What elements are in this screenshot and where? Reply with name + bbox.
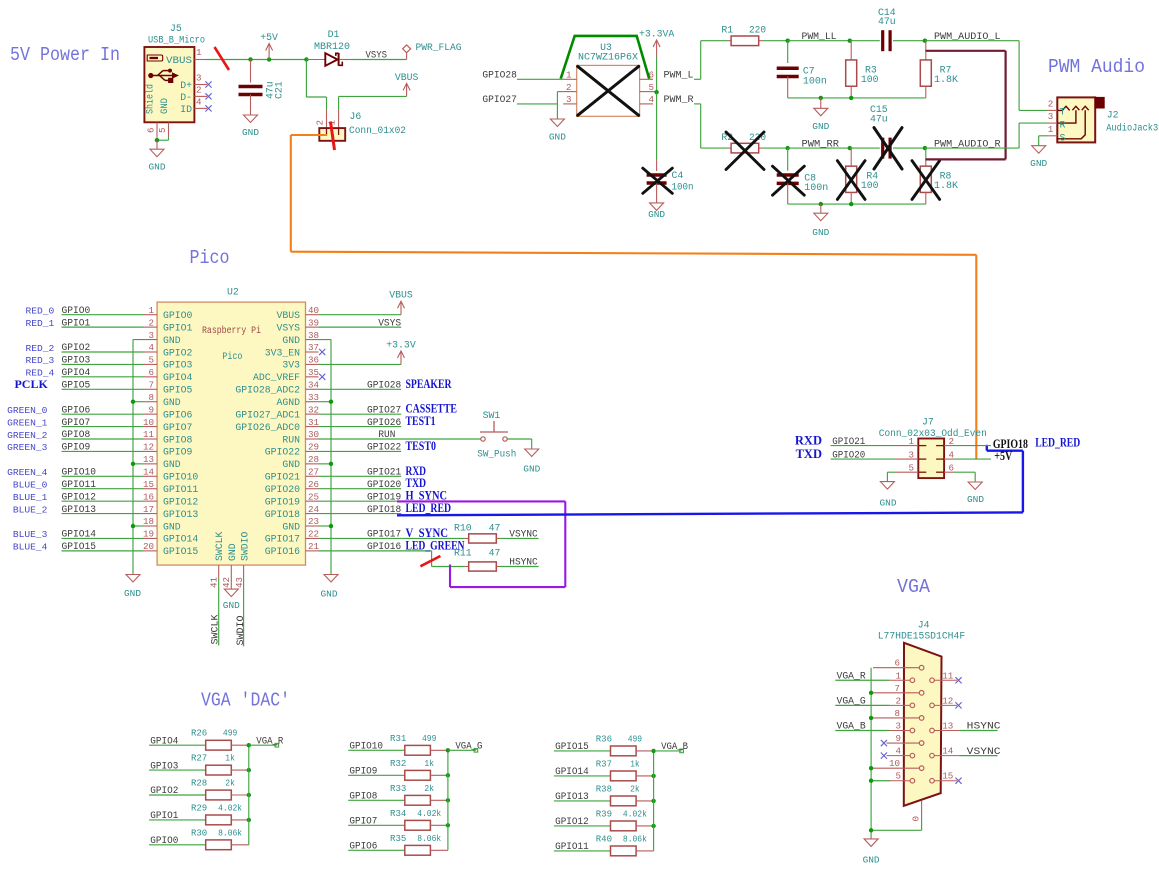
svg-text:5: 5 [148, 355, 154, 366]
svg-text:4: 4 [148, 342, 154, 353]
svg-text:VGA_G: VGA_G [455, 742, 482, 753]
svg-text:BLUE_0: BLUE_0 [13, 480, 48, 491]
svg-text:GPIO9: GPIO9 [62, 443, 91, 454]
svg-text:R37: R37 [596, 758, 612, 769]
svg-text:SWCLK: SWCLK [214, 531, 225, 561]
svg-text:R: R [1060, 121, 1066, 132]
svg-text:16: 16 [143, 491, 154, 502]
svg-text:GPIO28: GPIO28 [482, 71, 517, 82]
svg-text:4: 4 [196, 96, 202, 107]
svg-text:GPIO11: GPIO11 [163, 484, 198, 495]
svg-text:499: 499 [422, 733, 437, 744]
svg-text:R10: R10 [454, 523, 472, 534]
svg-text:USB_B_Micro: USB_B_Micro [148, 35, 205, 46]
svg-text:GPIO13: GPIO13 [555, 792, 589, 803]
svg-text:100: 100 [861, 74, 879, 85]
svg-text:GPIO15: GPIO15 [555, 742, 589, 753]
svg-text:GPIO11: GPIO11 [62, 480, 97, 491]
svg-text:23: 23 [308, 516, 319, 527]
svg-text:+5V: +5V [260, 32, 278, 43]
svg-text:GPIO28: GPIO28 [367, 380, 401, 391]
svg-text:SWDIO: SWDIO [239, 531, 250, 561]
svg-text:GPIO13: GPIO13 [62, 505, 97, 516]
svg-text:GREEN_2: GREEN_2 [7, 430, 48, 441]
svg-text:VSYS: VSYS [378, 318, 401, 329]
svg-text:SWCLK: SWCLK [211, 614, 222, 644]
svg-text:RED_3: RED_3 [26, 355, 55, 366]
svg-text:GPIO12: GPIO12 [163, 496, 198, 507]
svg-text:20: 20 [143, 541, 154, 552]
svg-text:R1: R1 [721, 25, 733, 36]
svg-text:2: 2 [196, 84, 202, 95]
svg-text:GPIO0: GPIO0 [62, 306, 91, 317]
svg-text:R11: R11 [454, 548, 472, 559]
svg-text:12: 12 [942, 695, 953, 706]
svg-text:GND: GND [549, 132, 566, 143]
svg-text:J4: J4 [918, 619, 930, 630]
svg-text:9: 9 [148, 404, 154, 415]
svg-text:Raspberry Pi: Raspberry Pi [202, 325, 261, 337]
svg-text:GPIO17: GPIO17 [367, 530, 401, 541]
svg-text:47: 47 [489, 523, 501, 534]
svg-text:GPIO3: GPIO3 [163, 360, 193, 371]
svg-text:1: 1 [908, 436, 914, 447]
svg-text:GPIO10: GPIO10 [349, 742, 383, 753]
svg-text:RUN: RUN [282, 434, 300, 445]
svg-text:GPIO22: GPIO22 [265, 447, 300, 458]
svg-text:1: 1 [566, 70, 572, 81]
svg-text:36: 36 [308, 355, 319, 366]
svg-text:GPIO19: GPIO19 [265, 496, 300, 507]
svg-text:VGA_B: VGA_B [837, 722, 866, 733]
svg-text:R32: R32 [390, 758, 407, 769]
svg-text:C4: C4 [672, 170, 684, 181]
svg-text:GPIO14: GPIO14 [62, 530, 97, 541]
svg-text:GND: GND [880, 498, 897, 509]
svg-text:GND: GND [223, 600, 240, 611]
svg-text:3: 3 [196, 73, 202, 84]
svg-text:5: 5 [908, 462, 914, 473]
svg-text:GPIO1: GPIO1 [62, 318, 91, 329]
svg-text:VGA_G: VGA_G [837, 697, 866, 708]
svg-text:GND: GND [282, 335, 300, 346]
svg-text:VBUS: VBUS [276, 310, 300, 321]
svg-text:15: 15 [942, 771, 953, 782]
svg-text:1: 1 [895, 670, 901, 681]
svg-text:GREEN_4: GREEN_4 [7, 467, 48, 478]
svg-text:PCLK: PCLK [14, 377, 48, 391]
svg-text:26: 26 [308, 479, 319, 490]
svg-text:GND: GND [124, 588, 141, 599]
svg-text:BLUE_3: BLUE_3 [13, 529, 48, 540]
svg-text:PWM Audio: PWM Audio [1048, 56, 1145, 78]
svg-text:GND: GND [282, 521, 300, 532]
svg-text:+5V: +5V [994, 449, 1012, 463]
svg-text:GPIO15: GPIO15 [62, 542, 97, 553]
svg-text:GPIO21: GPIO21 [832, 437, 865, 448]
svg-text:3V3: 3V3 [282, 360, 300, 371]
svg-text:5V Power In: 5V Power In [10, 44, 120, 66]
svg-text:+3.3V: +3.3V [386, 339, 416, 350]
svg-text:GND: GND [163, 335, 181, 346]
svg-text:U2: U2 [227, 286, 239, 297]
svg-text:33: 33 [308, 392, 319, 403]
svg-text:GND: GND [149, 162, 166, 173]
svg-text:HSYNC: HSYNC [967, 722, 1001, 733]
svg-text:ADC_VREF: ADC_VREF [253, 372, 300, 383]
svg-text:GPIO3: GPIO3 [150, 761, 178, 772]
svg-text:GPIO6: GPIO6 [163, 409, 193, 420]
svg-text:1: 1 [196, 47, 202, 58]
svg-text:GPIO4: GPIO4 [62, 368, 91, 379]
svg-text:21: 21 [308, 541, 320, 552]
svg-text:27: 27 [308, 466, 319, 477]
svg-text:0: 0 [911, 816, 922, 822]
svg-text:GND: GND [523, 464, 540, 475]
svg-text:AudioJack3: AudioJack3 [1106, 123, 1158, 134]
svg-text:R33: R33 [390, 783, 407, 794]
svg-text:R34: R34 [390, 808, 407, 819]
svg-text:31: 31 [308, 417, 320, 428]
svg-text:GND: GND [1030, 158, 1047, 169]
svg-text:13: 13 [942, 721, 953, 732]
svg-text:1k: 1k [630, 758, 640, 769]
svg-text:GND: GND [227, 543, 238, 561]
svg-text:GND: GND [967, 494, 984, 505]
svg-text:GPIO5: GPIO5 [62, 380, 91, 391]
svg-text:NC7WZ16P6X: NC7WZ16P6X [578, 52, 638, 63]
svg-text:R31: R31 [390, 733, 407, 744]
svg-text:18: 18 [143, 516, 154, 527]
svg-text:GPIO4: GPIO4 [163, 372, 193, 383]
svg-text:VSYS: VSYS [366, 51, 388, 62]
svg-text:+3.3VA: +3.3VA [639, 29, 674, 40]
svg-text:GPIO26: GPIO26 [367, 418, 401, 429]
svg-text:28: 28 [308, 454, 319, 465]
svg-text:2: 2 [148, 317, 154, 328]
svg-text:Conn_01x02: Conn_01x02 [349, 125, 406, 136]
svg-text:1: 1 [148, 305, 154, 316]
svg-text:100n: 100n [804, 182, 828, 193]
svg-text:3: 3 [908, 449, 914, 460]
svg-text:34: 34 [308, 379, 320, 390]
svg-text:GPIO28_ADC2: GPIO28_ADC2 [235, 385, 300, 396]
svg-text:GND: GND [242, 127, 259, 138]
svg-text:GPIO20: GPIO20 [265, 484, 300, 495]
svg-text:100n: 100n [803, 75, 827, 86]
svg-text:R30: R30 [191, 827, 208, 838]
svg-text:GPIO8: GPIO8 [62, 430, 91, 441]
svg-text:6: 6 [649, 70, 655, 81]
svg-text:7: 7 [148, 379, 154, 390]
svg-text:L77HDE15SD1CH4F: L77HDE15SD1CH4F [878, 630, 966, 641]
svg-text:R29: R29 [191, 802, 208, 813]
svg-text:4.02k: 4.02k [417, 808, 441, 819]
svg-text:R39: R39 [596, 808, 613, 819]
svg-text:4: 4 [895, 746, 901, 757]
svg-text:6: 6 [146, 127, 157, 133]
svg-text:GPIO5: GPIO5 [163, 385, 193, 396]
svg-text:2: 2 [315, 120, 326, 126]
svg-text:GPIO16: GPIO16 [367, 542, 401, 553]
svg-text:2k: 2k [424, 783, 434, 794]
svg-text:GPIO14: GPIO14 [163, 534, 198, 545]
svg-text:8.06k: 8.06k [417, 833, 441, 844]
svg-text:4.02k: 4.02k [218, 802, 242, 813]
svg-text:GND: GND [163, 397, 181, 408]
svg-text:VSYNC: VSYNC [967, 747, 1001, 758]
svg-text:GPIO12: GPIO12 [62, 492, 97, 503]
svg-text:VGA 'DAC': VGA 'DAC' [201, 690, 290, 712]
svg-text:LED_RED: LED_RED [1035, 436, 1080, 450]
svg-text:GND: GND [321, 589, 338, 600]
svg-text:2: 2 [566, 82, 572, 93]
svg-text:37: 37 [308, 342, 319, 353]
svg-text:TEST1: TEST1 [406, 414, 436, 428]
svg-text:17: 17 [143, 504, 154, 515]
svg-text:GND: GND [812, 227, 829, 238]
svg-text:VBUS: VBUS [166, 55, 192, 66]
svg-text:GND: GND [812, 121, 829, 132]
svg-text:12: 12 [143, 442, 154, 453]
svg-text:GPIO1: GPIO1 [163, 322, 193, 333]
svg-text:AGND: AGND [276, 397, 300, 408]
svg-text:10: 10 [889, 758, 900, 769]
svg-text:GND: GND [648, 209, 665, 220]
svg-text:GPIO1: GPIO1 [150, 811, 178, 822]
svg-text:GPIO0: GPIO0 [163, 310, 193, 321]
svg-text:D+: D+ [180, 80, 192, 91]
svg-text:39: 39 [308, 317, 319, 328]
svg-text:GPIO18: GPIO18 [367, 505, 401, 516]
svg-text:4: 4 [649, 94, 655, 105]
svg-text:GPIO14: GPIO14 [555, 767, 589, 778]
svg-text:Pico: Pico [222, 351, 242, 362]
svg-text:47: 47 [489, 548, 501, 559]
svg-text:41: 41 [209, 577, 220, 589]
svg-text:MBR120: MBR120 [314, 41, 350, 52]
svg-text:GND: GND [282, 459, 300, 470]
svg-text:1.8K: 1.8K [934, 180, 958, 191]
svg-text:499: 499 [223, 728, 238, 739]
svg-text:15: 15 [143, 479, 154, 490]
svg-text:3: 3 [148, 330, 154, 341]
svg-text:Shield: Shield [145, 84, 156, 114]
svg-text:11: 11 [942, 670, 954, 681]
svg-text:SW1: SW1 [483, 410, 501, 421]
svg-text:VGA: VGA [897, 576, 930, 598]
svg-text:R36: R36 [596, 733, 613, 744]
svg-text:J7: J7 [922, 417, 934, 428]
svg-text:5: 5 [157, 127, 168, 133]
svg-text:8.06k: 8.06k [218, 827, 242, 838]
svg-text:GPIO13: GPIO13 [163, 509, 198, 520]
svg-text:220: 220 [749, 25, 766, 36]
svg-text:GPIO15: GPIO15 [163, 546, 198, 557]
svg-text:19: 19 [143, 529, 154, 540]
svg-text:D-: D- [180, 92, 192, 103]
svg-text:Pico: Pico [190, 247, 230, 269]
svg-text:1k: 1k [225, 753, 235, 764]
svg-text:VGA_B: VGA_B [661, 742, 688, 753]
svg-text:GPIO0: GPIO0 [150, 836, 178, 847]
svg-text:RUN: RUN [378, 430, 395, 441]
svg-text:RED_0: RED_0 [26, 306, 55, 317]
svg-text:GPIO9: GPIO9 [349, 767, 377, 778]
svg-text:VBUS: VBUS [389, 290, 413, 301]
svg-text:2k: 2k [225, 778, 235, 789]
svg-text:GND: GND [863, 855, 880, 866]
svg-text:TEST0: TEST0 [406, 439, 437, 453]
svg-text:8: 8 [148, 392, 154, 403]
svg-text:29: 29 [308, 442, 319, 453]
svg-text:PWM_L: PWM_L [664, 71, 694, 82]
svg-text:GPIO27: GPIO27 [367, 405, 401, 416]
svg-text:GPIO2: GPIO2 [150, 786, 178, 797]
svg-text:25: 25 [308, 491, 319, 502]
svg-text:GPIO11: GPIO11 [555, 842, 589, 853]
svg-text:GPIO22: GPIO22 [367, 443, 401, 454]
svg-text:R28: R28 [191, 778, 208, 789]
svg-text:D1: D1 [328, 29, 340, 40]
svg-text:GND: GND [163, 459, 181, 470]
svg-text:2k: 2k [630, 783, 640, 794]
svg-text:PWM_R: PWM_R [664, 95, 694, 106]
svg-text:8.06k: 8.06k [623, 833, 647, 844]
svg-text:BLUE_1: BLUE_1 [13, 492, 48, 503]
svg-text:32: 32 [308, 404, 319, 415]
svg-text:GPIO17: GPIO17 [265, 534, 300, 545]
svg-text:13: 13 [143, 454, 154, 465]
svg-text:1.8K: 1.8K [934, 74, 958, 85]
svg-text:GREEN_1: GREEN_1 [7, 417, 48, 428]
svg-text:3V3_EN: 3V3_EN [265, 347, 300, 358]
svg-text:GPIO10: GPIO10 [62, 467, 97, 478]
svg-text:RED_1: RED_1 [26, 318, 55, 329]
svg-text:SPEAKER: SPEAKER [406, 377, 453, 391]
svg-text:3: 3 [895, 721, 901, 732]
svg-text:40: 40 [308, 305, 319, 316]
svg-text:35: 35 [308, 367, 319, 378]
svg-text:R27: R27 [191, 753, 207, 764]
svg-text:GPIO9: GPIO9 [163, 447, 193, 458]
svg-text:GPIO6: GPIO6 [62, 405, 91, 416]
svg-text:C21: C21 [274, 81, 285, 99]
svg-text:VSYNC: VSYNC [509, 530, 537, 541]
svg-text:SWDIO: SWDIO [236, 615, 247, 645]
svg-text:5: 5 [895, 771, 901, 782]
svg-text:7: 7 [894, 683, 900, 694]
svg-text:GPIO20: GPIO20 [832, 450, 865, 461]
svg-text:GPIO12: GPIO12 [555, 817, 589, 828]
svg-text:J5: J5 [170, 23, 182, 34]
svg-text:VSYS: VSYS [276, 322, 300, 333]
svg-text:J6: J6 [350, 111, 362, 122]
svg-text:38: 38 [308, 330, 319, 341]
svg-text:TXD: TXD [796, 447, 822, 461]
svg-text:2: 2 [895, 695, 901, 706]
svg-text:R40: R40 [596, 833, 613, 844]
svg-text:GPIO7: GPIO7 [62, 418, 91, 429]
svg-text:14: 14 [942, 746, 954, 757]
svg-text:RED_2: RED_2 [26, 343, 55, 354]
svg-text:11: 11 [143, 429, 155, 440]
svg-text:GPIO3: GPIO3 [62, 356, 91, 367]
svg-text:10: 10 [143, 417, 154, 428]
svg-text:Conn_02x03_Odd_Even: Conn_02x03_Odd_Even [879, 428, 987, 439]
svg-text:47u: 47u [878, 16, 896, 27]
svg-text:3: 3 [566, 94, 572, 105]
svg-text:1k: 1k [424, 758, 434, 769]
svg-text:LED_RED: LED_RED [406, 501, 452, 515]
svg-text:499: 499 [628, 733, 643, 744]
svg-text:4.02k: 4.02k [623, 808, 647, 819]
svg-text:6: 6 [894, 658, 900, 669]
svg-text:22: 22 [308, 529, 319, 540]
svg-text:GPIO2: GPIO2 [62, 343, 91, 354]
svg-text:VBUS: VBUS [395, 72, 419, 83]
svg-text:GPIO7: GPIO7 [349, 817, 377, 828]
svg-text:GPIO4: GPIO4 [150, 736, 178, 747]
svg-text:GPIO27: GPIO27 [482, 95, 517, 106]
svg-text:100n: 100n [672, 182, 694, 193]
svg-text:PWR_FLAG: PWR_FLAG [416, 42, 462, 53]
svg-text:GPIO21: GPIO21 [265, 472, 300, 483]
svg-text:100: 100 [861, 180, 879, 191]
svg-text:GPIO8: GPIO8 [163, 434, 193, 445]
svg-text:GPIO16: GPIO16 [265, 546, 300, 557]
svg-text:RXD: RXD [795, 433, 822, 447]
svg-text:GND: GND [159, 98, 170, 114]
svg-text:R35: R35 [390, 833, 407, 844]
svg-text:VGA_R: VGA_R [837, 671, 866, 682]
svg-text:6: 6 [148, 367, 154, 378]
svg-text:14: 14 [143, 466, 155, 477]
svg-text:GREEN_0: GREEN_0 [7, 405, 48, 416]
svg-text:GPIO21: GPIO21 [367, 467, 401, 478]
svg-text:9: 9 [895, 733, 901, 744]
svg-text:30: 30 [308, 429, 319, 440]
svg-text:GPIO10: GPIO10 [163, 472, 198, 483]
svg-text:GPIO2: GPIO2 [163, 347, 193, 358]
svg-text:S: S [1060, 134, 1066, 145]
svg-text:R26: R26 [191, 728, 208, 739]
svg-text:GND: GND [163, 521, 181, 532]
svg-text:VGA_R: VGA_R [256, 736, 283, 747]
svg-text:GREEN_3: GREEN_3 [7, 442, 48, 453]
svg-text:47u: 47u [870, 114, 888, 125]
svg-text:BLUE_4: BLUE_4 [13, 542, 48, 553]
svg-text:R38: R38 [596, 783, 613, 794]
svg-text:GPIO20: GPIO20 [367, 480, 401, 491]
svg-text:2: 2 [1048, 99, 1054, 110]
svg-text:3: 3 [1048, 111, 1054, 122]
svg-text:J2: J2 [1107, 110, 1119, 121]
svg-text:SW_Push: SW_Push [477, 449, 516, 460]
svg-text:GPIO19: GPIO19 [367, 492, 401, 503]
svg-text:GPIO18: GPIO18 [265, 509, 300, 520]
svg-text:GPIO7: GPIO7 [163, 422, 193, 433]
svg-text:24: 24 [308, 504, 320, 515]
svg-text:1: 1 [1048, 124, 1054, 135]
svg-text:HSYNC: HSYNC [509, 558, 537, 569]
svg-text:42: 42 [221, 577, 232, 588]
svg-text:GPIO26_ADC0: GPIO26_ADC0 [235, 422, 300, 433]
svg-text:T: T [1060, 108, 1066, 119]
svg-text:GPIO6: GPIO6 [349, 842, 377, 853]
svg-text:GPIO27_ADC1: GPIO27_ADC1 [235, 409, 300, 420]
svg-text:ID: ID [180, 104, 192, 115]
